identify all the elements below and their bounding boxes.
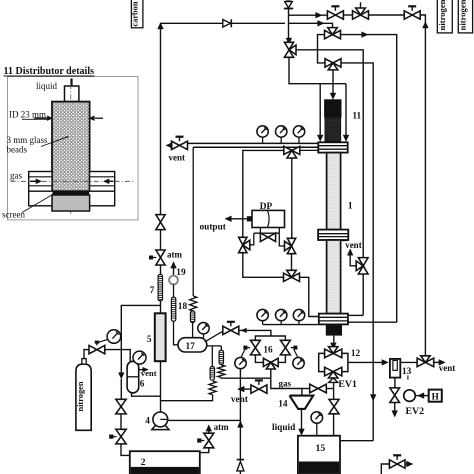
svg-text:gas: gas <box>279 378 292 388</box>
nitrogen cylinder N2 <box>458 0 473 33</box>
wire E right branch <box>341 35 397 323</box>
diagonal to gauge L <box>241 350 245 357</box>
coil on return <box>209 381 216 395</box>
wire 17 to gas capsule <box>220 346 222 350</box>
3-way vent valve V7 <box>356 258 368 274</box>
wire rotameter down <box>394 378 396 388</box>
svg-text:H: H <box>432 391 439 401</box>
wire gas-EV1 link <box>302 388 310 390</box>
gauge PG10 <box>107 330 121 344</box>
bubbler vent arrow <box>139 367 149 372</box>
svg-text:19: 19 <box>176 268 186 278</box>
column tube upper <box>327 153 341 230</box>
wire branch to bubbler line <box>118 305 160 399</box>
wire drain to tank15 <box>333 414 335 436</box>
frame 12 left <box>319 353 325 371</box>
svg-text:11 Distributor details: 11 Distributor details <box>4 66 95 77</box>
wire flange right vent tap <box>348 314 363 316</box>
svg-text:EV1: EV1 <box>338 379 357 390</box>
svg-text:beads: beads <box>7 144 28 154</box>
wire gas elbow <box>271 389 302 396</box>
label vent pump area <box>231 395 249 405</box>
wire 16L bottom <box>255 355 263 363</box>
svg-text:14: 14 <box>278 400 288 410</box>
arrow carbon line corner up <box>158 23 164 29</box>
3-way valve EV1 <box>325 367 342 382</box>
wire V7 vent branch <box>347 249 356 266</box>
wire E left to B <box>318 35 326 63</box>
wire DP bottom to flange <box>300 277 319 316</box>
valve V16 <box>116 399 126 414</box>
wire DP right down <box>291 254 293 271</box>
label 5 <box>147 335 152 345</box>
DP left nub <box>247 216 252 221</box>
inset label gas <box>10 170 22 180</box>
wire DP output line <box>225 216 247 222</box>
svg-text:vent: vent <box>169 153 186 163</box>
arrow 19 indicator <box>171 262 177 276</box>
wire cylinder to regulator <box>84 350 89 359</box>
wire sample arrow <box>405 461 413 467</box>
label vent top <box>169 153 186 163</box>
wire C to D <box>343 14 352 16</box>
gauge PG5 <box>276 309 287 324</box>
label 6 <box>140 380 145 390</box>
inset vertical axis line <box>70 84 72 214</box>
gauge PG11 <box>133 351 146 364</box>
wire 7 to humidifier <box>160 301 162 313</box>
valve V5 with T-handle <box>404 6 420 19</box>
wire bottom sample line <box>381 464 389 474</box>
gauge PG8 <box>235 357 246 368</box>
arrow E right <box>362 32 368 38</box>
label atm left <box>167 249 182 259</box>
wire DP left down <box>243 253 284 278</box>
svg-text:atm: atm <box>167 249 182 259</box>
atm valve V9 <box>149 250 165 265</box>
inset label screen <box>2 209 25 219</box>
wire EV1 drain <box>333 382 335 399</box>
svg-text:atm: atm <box>214 422 229 432</box>
wire B right branch <box>341 63 373 441</box>
regulator valve V15 <box>89 341 105 354</box>
wire tank15 right inlet <box>340 440 373 442</box>
arrow B branch down <box>370 395 376 401</box>
wire regulator to bubbler <box>105 350 130 362</box>
arrow into valve A <box>286 38 292 44</box>
pump 4 <box>152 412 169 430</box>
label 4 <box>145 417 150 427</box>
svg-text:gas: gas <box>10 170 22 180</box>
wire DP right tap <box>279 233 285 246</box>
wire flange right gas tap <box>348 321 397 323</box>
wire B bottom to distributor <box>330 70 336 100</box>
distributor 11 body <box>325 100 341 142</box>
wire atm vent up <box>206 425 212 433</box>
wire funnel to tank <box>299 409 305 435</box>
restrictor 7 <box>158 275 162 301</box>
gauge PG1 <box>257 126 268 144</box>
wire 12 to rotameter <box>348 360 388 366</box>
3-way valve DP-bottom <box>284 270 300 281</box>
coil on offgas line <box>190 296 197 311</box>
label 16 <box>263 346 273 356</box>
inset frame box <box>8 77 139 220</box>
arrow vent left <box>166 143 172 149</box>
tank 15 <box>298 436 340 474</box>
label 7 <box>150 286 155 296</box>
wire gas inlet left drop <box>317 84 323 142</box>
inset left gas plenum <box>29 172 52 192</box>
inset gas axis dashdot <box>11 180 135 182</box>
label 13 <box>402 367 412 380</box>
carbon gas cylinder <box>130 0 143 28</box>
wire DP left tap <box>250 233 254 245</box>
wire EV2 drain <box>392 403 398 418</box>
column bottom block <box>326 324 342 335</box>
inset bottom plate <box>29 191 115 206</box>
wire carbon riser <box>160 23 162 214</box>
3-way valve V10 with T-handle <box>223 322 239 335</box>
check valve CV2 <box>237 460 244 474</box>
wire 5 to pump <box>160 361 162 412</box>
svg-text:1: 1 <box>348 201 353 212</box>
valve V13 on drain <box>329 399 339 413</box>
3-way valve DP-top <box>284 146 319 158</box>
rotameter 13 <box>390 359 400 378</box>
wire DP impulse stems <box>254 228 279 234</box>
nub 16R <box>291 346 298 350</box>
nub 16L <box>243 346 250 350</box>
wire gas link to EV1 drain <box>326 388 333 390</box>
svg-text:16: 16 <box>263 346 273 356</box>
inset gas arrow right <box>104 179 114 184</box>
wire bubbler to pump suction <box>132 393 161 396</box>
gauge PG3 <box>293 126 304 144</box>
svg-text:liquid: liquid <box>36 81 58 91</box>
svg-text:nitrogen: nitrogen <box>437 0 447 30</box>
inset beads leader line <box>41 136 68 147</box>
svg-text:18: 18 <box>178 302 188 312</box>
3-way valve 12 <box>325 347 342 358</box>
wire V14 vent arrow <box>434 360 446 366</box>
wire carbon line horizontal <box>161 22 286 24</box>
label vent column-bottom <box>345 240 362 250</box>
column bottom flange <box>319 314 348 325</box>
label 19 <box>176 268 186 278</box>
wire V5 corner down <box>420 15 425 356</box>
wire rotameter to vent valve <box>400 361 417 363</box>
label 15 <box>316 443 326 454</box>
svg-text:4: 4 <box>145 417 150 427</box>
wire A bottom elbow <box>289 57 346 83</box>
label output <box>200 222 227 232</box>
gauge PG12 tank15 <box>311 412 323 436</box>
restrictor R1 on return <box>210 346 214 380</box>
gauge PG2 <box>276 126 287 144</box>
valve 16R <box>280 340 290 355</box>
inset ID arrow left <box>34 116 53 121</box>
gauge PG7 on 17 <box>198 323 209 338</box>
wire riser down to check <box>239 420 241 459</box>
label vent EV2 area <box>439 363 456 373</box>
wire column offgas drop <box>192 147 194 296</box>
sample valve V19 <box>389 455 405 468</box>
separator vessel 17 <box>178 338 207 352</box>
wire 18 to 17 <box>174 321 179 345</box>
wire gas inlet right drop <box>343 84 349 142</box>
cylinder nub <box>82 359 86 365</box>
wire manifold to line1 <box>289 14 331 16</box>
arrow vent pump area <box>238 386 251 392</box>
svg-text:5: 5 <box>147 335 152 345</box>
gauge PG6 <box>293 309 304 324</box>
valve 16L <box>250 340 260 355</box>
svg-text:6: 6 <box>140 380 145 390</box>
inset gas arrow left <box>30 179 42 184</box>
gauge PG4 <box>257 309 268 324</box>
wire line2 to valve E <box>289 23 333 28</box>
label EV2 <box>406 406 425 417</box>
svg-text:15: 15 <box>316 443 326 454</box>
label vent bubbler <box>141 368 157 378</box>
nitrogen cylinder left <box>76 364 91 430</box>
atm valve V18 <box>197 433 214 448</box>
svg-text:EV2: EV2 <box>406 406 425 417</box>
label 18 <box>178 302 188 312</box>
wire manifold riser <box>288 9 290 40</box>
restrictor 18 <box>171 297 175 321</box>
controller H box <box>429 390 442 402</box>
valve V12 on gas link <box>310 384 327 393</box>
inset right gas plenum <box>90 172 115 192</box>
svg-text:liquid: liquid <box>272 423 296 433</box>
label 17 <box>186 342 196 352</box>
wire riser v9-7 <box>160 265 162 275</box>
wire R2 to gas line <box>221 377 270 380</box>
arrow line1 <box>316 12 322 18</box>
label 14 <box>278 400 288 410</box>
arrow into V10 <box>241 328 247 333</box>
wire D to V5 <box>369 14 405 16</box>
bubbler 6 <box>127 361 139 393</box>
frame 12 right <box>342 353 348 371</box>
pipe column top <box>188 143 319 147</box>
3-way valve A <box>284 42 296 57</box>
wire pump riser <box>238 369 244 428</box>
svg-text:7: 7 <box>150 286 155 296</box>
wire return to pump suction <box>161 395 213 401</box>
inset screen band <box>52 191 89 195</box>
DP block valve right <box>285 238 296 253</box>
3-way valve E <box>325 28 341 39</box>
arrow up on nitrogen drop <box>423 22 429 28</box>
diagonal regulator-gauge <box>99 340 108 343</box>
label 2 <box>141 457 146 468</box>
valve V17 <box>109 429 126 444</box>
label atm tank2 <box>214 422 229 432</box>
label gas <box>279 378 292 388</box>
wire 17 right header <box>207 345 222 347</box>
column top flange <box>318 142 347 152</box>
svg-text:output: output <box>200 222 227 232</box>
wire gauges manifold <box>263 324 319 326</box>
wire v17 to tank2 <box>121 444 130 456</box>
wire H to EV2 <box>415 393 428 399</box>
restrictor on offgas line <box>190 311 194 323</box>
3-way vent valve V14 <box>417 356 434 367</box>
svg-text:carbon: carbon <box>130 1 139 26</box>
funnel 14 <box>290 396 314 409</box>
inset title 11 Distributor details <box>4 66 95 77</box>
EV2 actuator circle <box>404 390 416 402</box>
svg-text:13: 13 <box>402 367 412 377</box>
3-way valve 16B <box>263 358 278 369</box>
pressure regulator PR top <box>284 0 293 9</box>
label EV1 <box>338 379 357 390</box>
wire column block to valve12 <box>331 336 337 350</box>
wire into 17 top <box>192 323 194 338</box>
inset liquid feed arrow <box>68 79 76 94</box>
sensor ring 19 <box>169 276 178 285</box>
wire V7 below <box>362 274 364 315</box>
wire V10 to cluster16 <box>239 330 271 336</box>
valve EV2 body <box>390 388 400 403</box>
DP equalize valve <box>260 233 275 242</box>
inset screen leader line <box>22 195 52 213</box>
wire tank2 atm line <box>200 448 209 453</box>
wire v16-v17 <box>120 414 122 429</box>
restrictor R2 <box>219 350 223 364</box>
valve C with T-handle <box>327 6 343 19</box>
svg-text:nitrogen: nitrogen <box>76 381 85 411</box>
inset below-screen tube <box>52 195 90 211</box>
valve V8 <box>156 215 165 230</box>
column mid flange <box>318 230 348 240</box>
inset label liquid <box>36 81 58 91</box>
coil R2 <box>218 365 225 378</box>
inset ID arrow right <box>89 116 103 121</box>
column tick <box>341 240 348 242</box>
svg-text:vent: vent <box>141 368 157 378</box>
wire pump discharge <box>168 419 241 421</box>
3-way valve D <box>353 2 369 19</box>
label 1 <box>348 201 353 212</box>
column tube lower <box>327 240 341 314</box>
svg-text:11: 11 <box>352 112 361 122</box>
3-way valve B <box>325 59 341 70</box>
arrow line2 <box>318 20 324 26</box>
svg-text:2: 2 <box>141 457 146 468</box>
wire cluster16 top frame <box>255 336 285 340</box>
wire riser v8-v9 <box>160 230 162 250</box>
svg-text:12: 12 <box>351 349 361 359</box>
inset label 3 mm glass beads <box>7 135 48 154</box>
vent valve V11 <box>251 380 267 393</box>
tank 2 <box>130 451 200 474</box>
svg-text:17: 17 <box>186 342 196 352</box>
diagonal 17 to valve V10 <box>205 331 224 342</box>
inset feed tube <box>65 86 79 102</box>
wire 19 to 18 <box>173 284 175 297</box>
wire DP loop left <box>243 150 284 237</box>
svg-text:vent: vent <box>439 363 456 373</box>
gauge PG9 <box>293 357 304 368</box>
label 11 <box>352 112 361 122</box>
label DP <box>260 202 273 212</box>
nitrogen cylinder N1 <box>437 0 452 33</box>
DP block valve left <box>239 237 250 252</box>
label 12 <box>351 349 361 359</box>
svg-text:nitrogen: nitrogen <box>458 0 468 30</box>
svg-text:vent: vent <box>345 240 362 250</box>
label liquid feed <box>272 423 296 433</box>
inset label ID 23 mm <box>9 109 48 119</box>
diagonal to gauge R <box>294 350 298 357</box>
humidifier 5 <box>155 313 166 361</box>
wire 16B down gas <box>270 369 272 389</box>
wire A right branch <box>296 50 363 258</box>
svg-text:screen: screen <box>2 209 25 219</box>
inset main tube with glass beads <box>52 102 90 192</box>
check valve CV1 <box>223 19 232 27</box>
wire DP right riser <box>291 158 293 238</box>
DP transducer body <box>252 210 285 227</box>
wire 16R bottom <box>278 355 285 363</box>
vent valve V6 on pipe <box>172 137 188 150</box>
